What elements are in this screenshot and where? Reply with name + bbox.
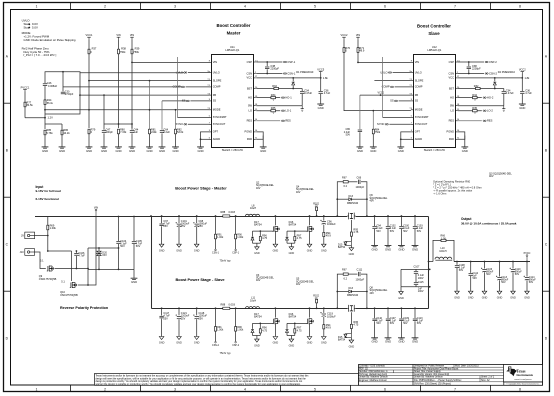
svg-text:VCC: VCC bbox=[247, 76, 253, 80]
junction bbox=[266, 61, 268, 63]
svg-text:1000pF: 1000pF bbox=[356, 185, 365, 189]
wire gate cluster down bbox=[290, 243, 292, 246]
svg-text:GND: GND bbox=[321, 342, 327, 345]
svg-text:4.75: 4.75 bbox=[353, 323, 359, 327]
junction bbox=[161, 215, 163, 217]
wire sync gate bbox=[350, 220, 352, 232]
junction bbox=[235, 215, 237, 217]
wire D15 loop bbox=[345, 334, 351, 338]
svg-text:50V: 50V bbox=[120, 245, 125, 248]
svg-text:FB: FB bbox=[415, 93, 419, 97]
wire C64 to ground bbox=[161, 133, 163, 147]
svg-text:COMP: COMP bbox=[213, 85, 221, 89]
junction bbox=[98, 269, 100, 271]
net flag CSN-1 bbox=[212, 249, 220, 255]
svg-text:Project Title: Automotive Dual: Project Title: Automotive Dual Phase Boo… bbox=[414, 367, 459, 370]
svg-text:CSN-2: CSN-2 bbox=[489, 71, 497, 75]
svg-text:GND: GND bbox=[524, 296, 530, 299]
net flag VIN (up) on bus bbox=[94, 207, 98, 217]
wire J9 feed bbox=[35, 235, 48, 237]
zone tick top bbox=[70, 2, 72, 9]
svg-text:PGND: PGND bbox=[245, 130, 253, 134]
svg-text:VIN: VIN bbox=[356, 33, 360, 37]
power flag VCC2 bbox=[341, 33, 348, 39]
capacitor C34 0.47uF bbox=[501, 91, 506, 94]
junction bbox=[118, 123, 120, 125]
wire output cap 3 bottom bbox=[400, 321, 402, 338]
svg-text:CSP: CSP bbox=[247, 60, 253, 64]
wire UVLO to pin bbox=[188, 72, 209, 74]
svg-text:49.9: 49.9 bbox=[326, 233, 332, 237]
wire to D15 bbox=[350, 329, 352, 334]
net flag RES bbox=[281, 119, 291, 123]
wire VCC1 rail bbox=[88, 39, 90, 128]
wire VIN rail 2 bbox=[131, 39, 133, 128]
svg-text:40V: 40V bbox=[489, 174, 494, 178]
svg-text:BST: BST bbox=[247, 86, 252, 90]
svg-text:84.5k: 84.5k bbox=[27, 103, 34, 107]
resistor R69 bbox=[47, 225, 49, 230]
wire FET drain bbox=[309, 216, 311, 226]
wire R86 top bbox=[61, 124, 63, 130]
wire gate cluster tie bbox=[287, 242, 295, 244]
wire Q10 to bus bbox=[78, 217, 96, 286]
capacitor C80 bbox=[357, 129, 362, 132]
U12 pin SW bbox=[455, 105, 458, 107]
capacitor C121 (polarized) bbox=[176, 315, 182, 320]
svg-text:GND: GND bbox=[497, 296, 503, 299]
junction bbox=[484, 261, 486, 263]
svg-text:50V: 50V bbox=[390, 230, 395, 233]
wire to D1 bbox=[292, 78, 294, 81]
U12 pin UVLO bbox=[411, 72, 414, 74]
svg-text:Drawn By: Matthew Jimison: Drawn By: Matthew Jimison bbox=[414, 376, 443, 379]
svg-text:R35: R35 bbox=[271, 106, 276, 110]
wire R82 vertical bbox=[175, 110, 177, 129]
svg-text:1.00k: 1.00k bbox=[217, 329, 224, 332]
wire gate resistor bottom bbox=[259, 241, 261, 244]
diode D1-1 PMEG6010 bbox=[292, 82, 295, 85]
U11 pin PGND bbox=[253, 131, 256, 133]
wire FB row slave bbox=[360, 94, 411, 96]
diode D15 BAT54 bbox=[344, 334, 347, 337]
svg-text:1.8k: 1.8k bbox=[323, 76, 329, 80]
svg-text:GND: GND bbox=[412, 247, 418, 251]
wire C34 top bbox=[301, 89, 303, 92]
svg-text:Sheet: 2 of 2: Sheet: 2 of 2 bbox=[481, 376, 495, 379]
svg-text:CSP-2: CSP-2 bbox=[232, 345, 239, 347]
wire SW row bbox=[256, 105, 302, 107]
svg-text:www.ti.com/power: www.ti.com/power bbox=[514, 378, 532, 381]
svg-text:40V: 40V bbox=[296, 283, 301, 286]
junction bbox=[323, 215, 325, 217]
capacitor C107 bbox=[413, 271, 418, 274]
resistor R102 10 bbox=[316, 207, 318, 211]
title block row line bbox=[358, 377, 413, 379]
junction bbox=[79, 94, 81, 96]
U11 pin RES bbox=[253, 120, 256, 122]
zone tick right bbox=[542, 196, 549, 198]
svg-text:1: 1 bbox=[36, 388, 38, 392]
wire R80 to ground bbox=[118, 133, 120, 147]
U11 pin COMP bbox=[209, 86, 212, 88]
ground (arrow) snubber ladder bbox=[398, 292, 404, 300]
title block divider bbox=[412, 364, 414, 385]
junction bbox=[414, 215, 416, 217]
svg-text:Engineer: Matthew Jimison: Engineer: Matthew Jimison bbox=[359, 379, 388, 382]
svg-text:SLOPE: SLOPE bbox=[213, 78, 222, 82]
svg-text:VCC1: VCC1 bbox=[86, 33, 93, 37]
wire SYNCOUT to pin slave bbox=[389, 123, 411, 125]
wire gate cluster down bbox=[256, 243, 258, 246]
svg-text:R32: R32 bbox=[474, 84, 479, 88]
zone tick left bbox=[3, 102, 10, 104]
wire BST to C34 bbox=[293, 88, 302, 90]
svg-text:25V: 25V bbox=[199, 225, 204, 228]
net flag CSN-1 bbox=[283, 71, 295, 75]
wire J10 to Q9 bbox=[35, 252, 46, 269]
resistor R86 bbox=[61, 130, 63, 135]
svg-text:PAD: PAD bbox=[449, 137, 454, 141]
junction bbox=[336, 198, 338, 200]
U12 pin PAD bbox=[455, 138, 458, 140]
wire to gate diode bbox=[286, 323, 288, 329]
svg-text:CSD17570Q5B: CSD17570Q5B bbox=[39, 277, 57, 281]
svg-text:J10: J10 bbox=[20, 251, 25, 254]
connector J9 bbox=[21, 232, 35, 239]
wire C104 bottom bbox=[118, 244, 120, 269]
wire C106 bottom bbox=[75, 256, 77, 269]
resistor R96 4.75 bbox=[259, 329, 261, 333]
U12 pin VCC bbox=[455, 77, 458, 79]
ground under R82 bbox=[172, 147, 179, 153]
wire snubber mid top bbox=[348, 273, 357, 275]
svg-text:GND: GND bbox=[159, 249, 165, 252]
wire HO row bbox=[256, 97, 280, 99]
U12 pin SYNCOUT bbox=[411, 123, 414, 125]
wire gate diode bottom bbox=[286, 241, 288, 244]
svg-text:1.00k: 1.00k bbox=[217, 236, 224, 239]
transistor (sync FET on bus) bbox=[347, 304, 355, 312]
zener D20 bbox=[96, 251, 101, 255]
wire to gate diode bbox=[252, 323, 254, 329]
svg-text:1.00k: 1.00k bbox=[237, 236, 244, 239]
junction bbox=[336, 307, 338, 309]
svg-text:4.7uF: 4.7uF bbox=[324, 91, 331, 95]
U12 pin MODE bbox=[411, 109, 414, 111]
svg-text:50V: 50V bbox=[390, 322, 395, 325]
wire C34 top bbox=[503, 89, 505, 92]
junction bbox=[294, 230, 296, 232]
svg-text:9-16V for full load: 9-16V for full load bbox=[36, 189, 61, 193]
svg-text:100V: 100V bbox=[418, 277, 424, 280]
wire R90 top bbox=[235, 216, 237, 234]
junction bbox=[196, 307, 198, 309]
ground under FET bbox=[273, 337, 279, 345]
svg-text:© Copyright 2015, Texas Instru: © Copyright 2015, Texas Instruments Inc. bbox=[507, 383, 540, 386]
wire output cap 4 bottom bbox=[414, 229, 416, 246]
wire gate diode bottom bbox=[286, 333, 288, 336]
capacitor 0.1uF bbox=[399, 226, 404, 229]
junction bbox=[414, 307, 416, 309]
svg-text:VIN: VIN bbox=[130, 33, 134, 37]
svg-text:8: 8 bbox=[519, 388, 521, 392]
power flag VCC5 bbox=[317, 67, 324, 73]
wire R90 top bbox=[235, 308, 237, 326]
wire to divider bbox=[25, 117, 45, 119]
svg-text:fSwitch = 250 kHz: fSwitch = 250 kHz bbox=[424, 148, 446, 152]
svg-text:R67: R67 bbox=[342, 268, 347, 272]
U12 pin AGND bbox=[411, 138, 414, 140]
svg-text:Boost Power Stage - Master: Boost Power Stage - Master bbox=[175, 186, 227, 191]
wire SYNCIN row bbox=[177, 116, 209, 118]
svg-text:25V: 25V bbox=[199, 317, 204, 320]
svg-text:Mod. Date: 10/20/2015: Mod. Date: 10/20/2015 bbox=[455, 365, 479, 368]
svg-text:GND: GND bbox=[412, 340, 418, 344]
svg-text:50V: 50V bbox=[501, 281, 506, 284]
wire R81 to ground bbox=[149, 134, 151, 147]
resistor R24 bbox=[44, 100, 46, 105]
junction bbox=[323, 307, 325, 309]
wire SS row bbox=[162, 100, 186, 102]
shunt resistor R88 bbox=[223, 215, 230, 217]
svg-text:6: 6 bbox=[384, 5, 386, 9]
junction bbox=[366, 198, 368, 200]
junction bbox=[259, 323, 261, 325]
svg-text:SYNC: SYNC bbox=[176, 122, 183, 126]
zone tick bottom bbox=[420, 385, 422, 391]
wire C64 vertical bbox=[161, 101, 163, 130]
diode clamp MBRS340 bbox=[349, 290, 352, 293]
svg-text:1000uF: 1000uF bbox=[327, 314, 336, 318]
svg-text:BAT54: BAT54 bbox=[289, 315, 297, 319]
svg-text:GND: GND bbox=[398, 247, 404, 251]
wire PVCC branch bbox=[24, 92, 26, 118]
svg-text:MODE: MODE bbox=[415, 108, 423, 112]
wire C98 bottom bbox=[196, 227, 198, 244]
svg-text:4.7uF: 4.7uF bbox=[78, 254, 85, 257]
wire OPT to ground slave bbox=[401, 132, 411, 147]
zone tick bottom bbox=[70, 385, 72, 391]
svg-text:RES: RES bbox=[487, 119, 493, 123]
transistor (low-side) bbox=[273, 318, 281, 325]
junction bbox=[366, 215, 368, 217]
capacitor C106 bbox=[74, 253, 79, 256]
svg-text:Assembly Variant: 001 [Assembl: Assembly Variant: 001 [Assembly] bbox=[414, 373, 450, 376]
note UVLO flag glyphs bbox=[28, 23, 30, 28]
wire R69 top bbox=[47, 217, 49, 226]
resistor R97 4.75 bbox=[294, 329, 296, 333]
wire C44 to ground bbox=[131, 133, 133, 147]
capacitor C38-1 bbox=[265, 66, 270, 69]
U12 pin HO bbox=[455, 97, 458, 99]
wire sync gate bbox=[350, 312, 352, 324]
zone tick left bbox=[3, 196, 10, 198]
title block row line bbox=[358, 366, 413, 368]
svg-text:1.00k: 1.00k bbox=[237, 329, 244, 332]
svg-text:Sheet Title: Power Supply: Sheet Title: Power Supply bbox=[414, 370, 441, 373]
wire C98 top bbox=[196, 216, 198, 223]
resistor R85 bbox=[44, 130, 46, 135]
resistor R34 bbox=[271, 96, 276, 98]
capacitor C36 4.7uF bbox=[520, 91, 525, 94]
capacitor 0.1uF bbox=[412, 226, 417, 229]
wire C105 bottom bbox=[133, 244, 135, 269]
wire gate bbox=[287, 322, 307, 324]
svg-text:0.003: 0.003 bbox=[229, 303, 236, 307]
svg-text:B: B bbox=[545, 148, 547, 152]
zone tick top bbox=[210, 2, 212, 9]
capacitor C34 0.47uF bbox=[300, 91, 305, 94]
svg-text:0.47uF: 0.47uF bbox=[304, 91, 312, 95]
capacitor C64 bbox=[159, 130, 164, 133]
junction bbox=[470, 261, 472, 263]
junction bbox=[512, 261, 514, 263]
svg-text:GND: GND bbox=[482, 296, 488, 299]
wire MODE row bbox=[45, 109, 209, 111]
ground under output cap bbox=[398, 246, 405, 252]
svg-text:Master: Master bbox=[227, 31, 241, 36]
svg-text:R35: R35 bbox=[472, 106, 477, 110]
junction bbox=[468, 73, 470, 75]
wire to D15 bbox=[350, 236, 352, 241]
capacitor 0.1uF bbox=[372, 226, 377, 229]
wire VCC flag stem bbox=[320, 74, 322, 78]
svg-text:CSN: CSN bbox=[247, 71, 253, 75]
capacitor C108 bbox=[454, 265, 459, 268]
svg-text:SW: SW bbox=[248, 104, 253, 108]
svg-text:HO-2: HO-2 bbox=[487, 95, 494, 99]
svg-text:GND: GND bbox=[398, 297, 404, 300]
svg-text:warrant the design is suitable: warrant the design is suitable or produc… bbox=[96, 383, 302, 386]
svg-text:40V: 40V bbox=[296, 191, 301, 194]
U11 pin SW bbox=[253, 105, 256, 107]
wire to input ground bbox=[133, 269, 135, 278]
svg-text:SYNCOUT: SYNCOUT bbox=[213, 122, 226, 126]
wire snubber box left bbox=[337, 182, 343, 216]
wire output cap 3 top bbox=[400, 216, 402, 226]
power flag PVCC1 bbox=[21, 85, 30, 91]
resistor R95 4.75 bbox=[350, 324, 352, 328]
capacitor C97 bbox=[159, 223, 164, 226]
ground under FET bbox=[273, 244, 279, 252]
svg-text:GND: GND bbox=[273, 342, 279, 345]
svg-text:GND: GND bbox=[260, 149, 266, 153]
wire FET source bbox=[274, 323, 276, 336]
op-amp-IC U12 LM5122-Q1 box bbox=[414, 55, 456, 148]
net flag CSN-2 bbox=[212, 341, 220, 346]
junction bbox=[215, 215, 217, 217]
wire SLOPE row slave bbox=[374, 80, 411, 82]
ground under R84 bbox=[370, 147, 377, 153]
wire SS to pin bbox=[190, 100, 209, 102]
svg-text:15V: 15V bbox=[102, 254, 107, 257]
svg-text:50V: 50V bbox=[417, 230, 422, 233]
transistor Q10 CSD17570Q5B bbox=[70, 281, 78, 288]
svg-text:25V: 25V bbox=[181, 317, 186, 320]
U12 pin SS bbox=[411, 100, 414, 102]
svg-text:BST: BST bbox=[449, 86, 454, 90]
U11 pin VCC bbox=[253, 77, 256, 79]
wire snubber box left bbox=[337, 274, 343, 308]
inductor L10 core lines bbox=[435, 259, 452, 261]
wire output cap 1 bottom bbox=[374, 229, 376, 246]
svg-text:SLOPE: SLOPE bbox=[415, 78, 424, 82]
net flag HO-2 bbox=[483, 95, 494, 99]
svg-text:MBRS340: MBRS340 bbox=[347, 294, 359, 297]
resistor R67 6.2 bbox=[343, 273, 348, 275]
junction bbox=[47, 250, 49, 252]
wire C117 bottom bbox=[161, 319, 163, 337]
svg-text:MODE: MODE bbox=[213, 108, 221, 112]
svg-text:GND: GND bbox=[159, 149, 165, 153]
junction bbox=[175, 109, 177, 111]
junction bbox=[526, 261, 528, 263]
svg-text:RES: RES bbox=[449, 119, 455, 123]
wire VCC row bbox=[458, 77, 523, 79]
wire SS to pin slave bbox=[399, 100, 411, 102]
ground under C101 bbox=[176, 244, 182, 252]
resistor R94 49.9 bbox=[323, 325, 325, 329]
wire OPT to ground bbox=[201, 132, 210, 147]
zone tick bottom bbox=[210, 385, 212, 391]
svg-text:4.75: 4.75 bbox=[262, 236, 268, 240]
resistor R94 49.9 bbox=[323, 232, 325, 236]
shunt resistor R88 bbox=[223, 307, 230, 309]
svg-text:SYNCOUT: SYNCOUT bbox=[415, 122, 428, 126]
svg-text:GND: GND bbox=[307, 342, 313, 345]
junction bbox=[44, 117, 46, 119]
junction bbox=[178, 215, 180, 217]
svg-text:MBRS340: MBRS340 bbox=[347, 202, 359, 205]
wire output cap 3 bottom bbox=[400, 229, 402, 246]
svg-text:VCC2: VCC2 bbox=[378, 91, 385, 94]
net flag COMP bbox=[382, 85, 394, 89]
wire R66 branch bbox=[433, 240, 454, 261]
zone tick left bbox=[3, 290, 10, 292]
svg-text:SYNC: SYNC bbox=[377, 122, 384, 126]
wire gate resistor bottom bbox=[294, 333, 296, 336]
svg-text:7.15k: 7.15k bbox=[120, 130, 127, 134]
wire PGND/PAD tie bbox=[458, 132, 465, 139]
svg-text:50V: 50V bbox=[486, 273, 491, 276]
diode D16 BAT54 bbox=[286, 237, 289, 240]
wire to gate diode bbox=[286, 231, 288, 237]
wire commons to Q10 path bbox=[87, 269, 89, 285]
junction bbox=[309, 215, 311, 217]
svg-text:SW: SW bbox=[450, 104, 455, 108]
wire PGND to ground bbox=[262, 136, 264, 147]
svg-text:100V: 100V bbox=[418, 290, 424, 293]
svg-text:SVN tag: (default tag) [svn]: SVN tag: (default tag) [svn] bbox=[359, 373, 387, 376]
svg-text:750k: 750k bbox=[133, 50, 139, 54]
ground arrow at SW node bbox=[301, 106, 304, 112]
svg-text:HO-1: HO-1 bbox=[285, 95, 292, 99]
wire BST row bbox=[256, 88, 293, 90]
U12 pin LO bbox=[455, 110, 458, 112]
wire R79 to ground bbox=[88, 133, 90, 147]
wire comp branch bbox=[62, 72, 64, 92]
wire VCC2 rail bbox=[344, 39, 411, 110]
svg-text:Boost Power Stage - Slave: Boost Power Stage - Slave bbox=[175, 277, 225, 282]
wire C112 top bbox=[470, 262, 472, 273]
wire ladder to ground bbox=[400, 287, 402, 292]
wire VIN to U11.VIN bbox=[132, 61, 209, 63]
junction bbox=[178, 307, 180, 309]
bottom row divider bbox=[358, 381, 504, 383]
svg-text:PAD: PAD bbox=[247, 137, 252, 141]
svg-text:VIN: VIN bbox=[213, 60, 217, 64]
